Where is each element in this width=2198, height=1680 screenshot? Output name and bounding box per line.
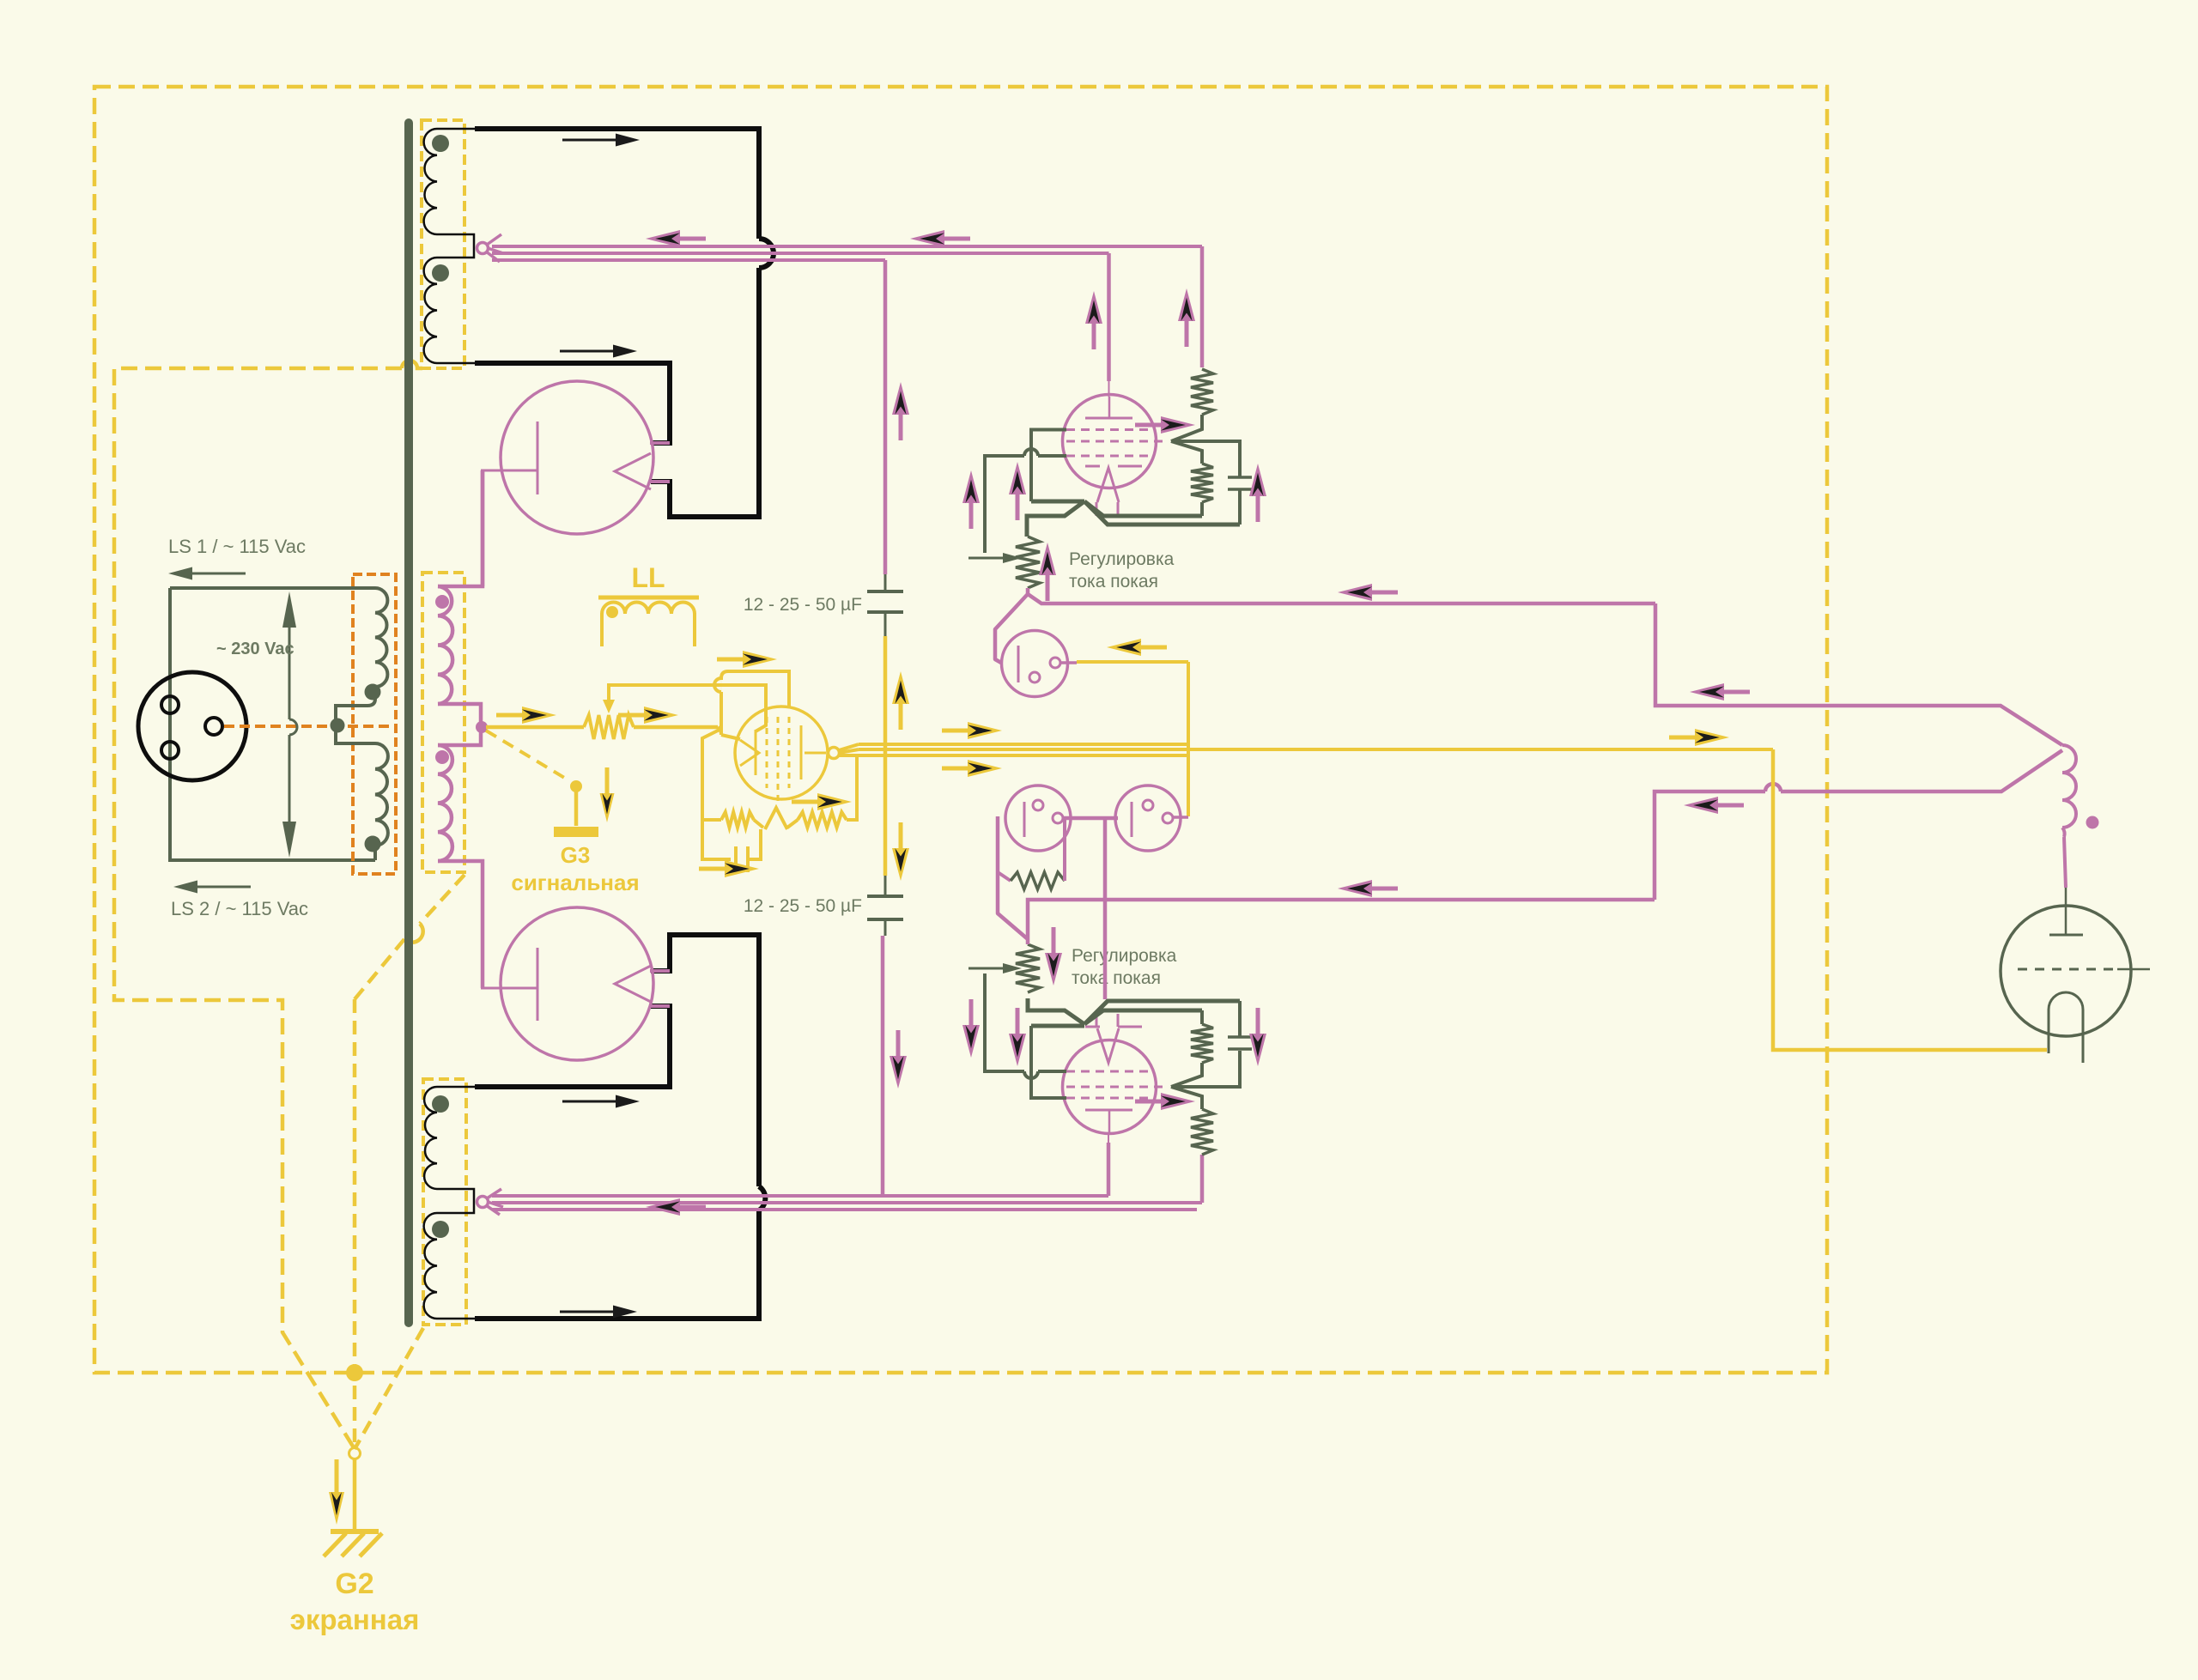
potentiometer bias lower [1016,944,1040,992]
wire anode bundle fan [839,744,859,750]
wire 230Vac loop [170,586,375,590]
wire feed resistor R6 lower [1200,1155,1205,1203]
wire dashed G3 signal [486,731,570,781]
potentiometer bias upper [1016,537,1040,588]
arrow output upper [1338,584,1372,601]
wire coil to V6 [2064,837,2066,888]
arrow current into ground [329,1492,344,1525]
socket heater lower left [1005,785,1071,851]
inductor output coupling coil [2062,745,2076,828]
arrow LS2 current [173,881,197,894]
wire dashed diagonal from bottom winding box to ground node [355,1328,423,1449]
tap bracket top windings [437,234,474,258]
arrow loop top inner [613,345,637,358]
arrow output lower [1338,880,1372,897]
wire black plate loop bottom outer [475,1210,759,1319]
arrow LS1 current [168,567,192,580]
winding top A1 [437,128,475,130]
wire bundle line2 main [859,748,1773,751]
arrow up pot upper [1039,543,1056,575]
winding bottom B2 [424,1213,437,1319]
tube V1 upper driver triode [501,381,653,534]
arrow feedback [644,707,678,724]
arrow loop bottom outer [613,1306,637,1319]
svg-text:тока покая: тока покая [1069,572,1158,591]
wire pot top to output lower [1028,900,1655,944]
wire heater top line3 [492,258,885,262]
svg-text:LL: LL [631,562,665,593]
net G2 shield outer dashed boundary [94,87,1827,1373]
winding primary lower [375,743,388,846]
wire black plate loop top inner [475,363,670,443]
capacitor C2 12-25-50uF [884,876,887,895]
ground G3 symbol [574,791,579,826]
wire heater bottom line3 [492,1208,1197,1211]
arrow cathode right [817,793,852,810]
winding top A2 [424,258,437,363]
wire screen feedback upper [714,671,789,707]
wire yellow heater return [1773,749,2047,1050]
capacitor C4 lower [1171,1051,1240,1087]
resistor cathode left [702,818,721,822]
wire socket right pin down [1103,818,1108,999]
connector XLR mains [138,672,246,780]
dimension 230Vac [288,601,291,719]
wire black plate loop bottom inner [475,1006,670,1087]
wire heater bottom line1 [492,1194,1108,1198]
capacitor C3 upper [1171,441,1240,476]
arrow heater top b [910,230,944,247]
wire heater top line1 [492,245,1202,248]
cathode foot V5 [1031,1024,1084,1028]
arrow bundle above [968,722,1002,739]
wire pot bottom to socket upper [995,588,1028,663]
arrow into tube [743,651,777,668]
wire grid V1 to secondary [481,470,485,586]
arrow up centre yellow [892,671,909,704]
tube V6 right [2065,888,2067,935]
svg-text:Регулировка: Регулировка [1072,946,1177,966]
box bottom secondary winding dashed [423,1079,466,1325]
cathode foot V4 [1031,500,1084,504]
svg-text:Регулировка: Регулировка [1069,549,1175,569]
wire heater bottom line2 [492,1201,1202,1204]
svg-text:LS 1 / ~ 115 Vac: LS 1 / ~ 115 Vac [168,536,306,557]
wire dashed hop over core at top shield edge [402,361,422,368]
resistor R5 cathode upper [1200,502,1204,516]
arrow down screen feed bottom [890,1056,907,1089]
arrow cathode bottom [725,860,759,877]
socket heater lower right [1115,785,1181,851]
arrow loop top outer [616,134,640,147]
wire cathode loop V3 [702,729,731,859]
box primary winding dashed orange [353,574,396,874]
wire pot bottom to output upper [1028,594,1655,603]
wire grid V2 to secondary [481,872,485,988]
winding bottom B1 [437,1086,475,1089]
svg-text:~ 230 Vac: ~ 230 Vac [216,640,294,658]
capacitor cathode bypass [734,846,738,872]
node shield junction dot [346,1364,363,1381]
winding middle secondary upper [438,470,483,586]
wire centre yellow link [883,636,888,876]
arrow down centre yellow [892,848,909,881]
svg-text:сигнальная: сигнальная [511,870,639,895]
svg-text:12 - 25 - 50 µF: 12 - 25 - 50 µF [744,595,862,615]
wire grid1 V4 hop [1038,454,1066,458]
arrow yellow socket upper [1107,639,1141,656]
transformer core bus [404,123,413,1323]
wire dashed diagonal from secondary box to shield [420,875,464,924]
wire screen feed top [883,260,888,574]
wire heater drop to V4 [1107,253,1111,381]
wire output bottom to coil [1655,791,1765,900]
node signal tap middle [476,721,488,733]
node ground V junction circle [349,1448,361,1459]
arrow down pot lower [1045,953,1062,986]
resistor R8 socket lower [998,872,1011,881]
arrow grid2 lower [1161,1093,1195,1110]
wire between sockets [1063,816,1118,821]
arrow up feed R4 [1178,288,1195,321]
wire socket to bundle upper [1060,661,1077,664]
arrow heater top a [646,230,680,247]
svg-text:LS 2 / ~ 115 Vac: LS 2 / ~ 115 Vac [171,898,308,919]
inductor LL [598,596,699,600]
tube V5 output lower [1063,1040,1157,1134]
node G3 [570,780,582,792]
wire socket right to bundle [1173,816,1188,819]
arrow wiper lower [1003,963,1022,973]
socket heater upper [1002,631,1068,697]
capacitor C1 12-25-50uF [884,574,887,591]
box middle secondary winding dashed [422,573,464,872]
resistor R4 anode upper [1191,369,1213,415]
arrow down cap lower [1249,1034,1266,1066]
wire signal from tap [486,725,584,730]
wire grid1 V5 hop [1038,1070,1066,1073]
arrow output right lower [1684,797,1718,814]
node anode V3 [829,748,840,759]
svg-text:G2: G2 [335,1568,373,1600]
potentiometer input level [584,715,634,739]
arrow up screen feed [892,382,909,415]
arrow loop bottom inner [616,1095,640,1108]
wire bundle line3 [859,754,1188,757]
wire screen feed bottom [881,936,885,1196]
box top secondary winding dashed [422,120,464,368]
arrow up heater V4 [1085,291,1102,324]
tube V3 pentode driver [735,707,828,799]
wire dashed shield vertical to ground [353,999,357,1449]
arrow up cap upper [1249,464,1266,496]
wire bundle line1 [859,743,1188,746]
tube V4 output upper [1063,395,1157,488]
svg-text:G3: G3 [561,842,591,868]
winding primary upper [170,587,375,589]
arrow output right upper [1690,683,1724,701]
wire grid3 V4 [1031,430,1066,502]
resistor cathode right [787,820,798,828]
arrow yellow heater return [1695,729,1729,746]
wire black plate loop top outer [475,129,759,239]
arrow wiper upper [1003,553,1022,563]
svg-text:12 - 25 - 50 µF: 12 - 25 - 50 µF [744,896,862,916]
winding middle secondary lower [438,731,481,745]
ground G2 earth symbol [353,1459,357,1531]
wire grid3 V5 [1031,1026,1066,1098]
wire pot top to sockets lower [998,816,1028,939]
arrow bundle below [968,760,1002,777]
arrow signal a [522,707,556,724]
tube V2 lower driver triode [501,907,653,1060]
node heater tap top [477,243,489,254]
resistor R7 cathode lower [1200,1010,1204,1024]
arrow into G3 [600,793,615,822]
svg-text:тока покая: тока покая [1072,968,1161,988]
resistor R6 anode lower [1191,1109,1213,1155]
arrow heater bottom [646,1198,680,1216]
wire heater top line2 [492,252,1109,255]
wire output top to coil [1655,603,2062,745]
arrow grid2 upper [1161,416,1195,434]
wire tube pin lower [1108,1135,1109,1143]
wire orange neutral dashed [224,725,396,728]
arrows down bias lower [962,1025,980,1058]
wire pot wiper feedback [609,685,766,731]
arrows up bias upper [962,470,980,503]
svg-text:экранная: экранная [290,1604,420,1635]
tap bracket bottom windings [437,1189,474,1213]
node transformer centre tap [331,719,345,733]
node heater tap bottom [477,1197,489,1208]
cathode return tent [765,808,787,829]
net inner shield dashed boundary left [114,368,402,1449]
wire to grid [634,725,718,730]
wire feed resistor R4 [1200,246,1205,367]
